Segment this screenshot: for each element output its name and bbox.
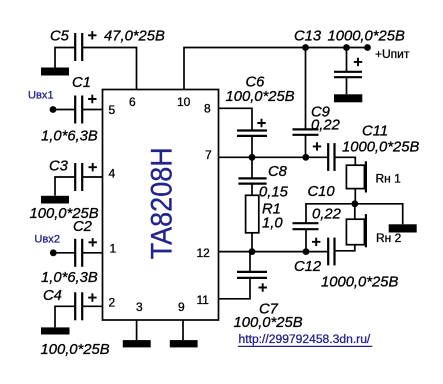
svg-text:C4: C4 [43,288,62,304]
resistor Rn1 [346,161,366,192]
IC U1 TA8208H [103,90,219,321]
svg-text:11: 11 [197,293,210,307]
svg-text:5: 5 [109,103,116,117]
svg-text:+Uпит: +Uпит [375,47,410,61]
wire pin 8 to C6 [219,108,253,130]
svg-text:C10: C10 [308,184,336,200]
wire pin 3 to ground [136,320,138,340]
node supply at C13 branch [302,44,309,51]
polarity + of C13 [354,58,362,66]
ground of C5 [41,68,69,76]
svg-text:9: 9 [178,300,185,314]
wire Rn2 to C12 [335,245,355,251]
svg-text:1: 1 [110,242,117,256]
svg-text:0,15: 0,15 [259,185,289,201]
wire C5 left [55,48,75,68]
wire C7 to pin 11 [219,278,251,299]
wire input1 to C1 [53,109,75,111]
ground of Rn [389,224,417,232]
wire C2 to pin 1 [82,252,102,254]
wire pin 10 to supply rail [184,48,368,90]
svg-text:4: 4 [109,167,116,181]
ground of C4 [41,327,70,334]
wire junction to ground [355,204,403,225]
svg-text:1000,0*25В: 1000,0*25В [342,140,419,156]
wire C8 to R1 [251,184,253,196]
wire junction to C10 [306,204,355,223]
wire C10 to rail 12 [305,229,307,251]
svg-text:6: 6 [129,95,136,109]
polarity + of C2 [89,238,97,246]
polarity + of C11 [313,142,321,150]
capacitor C11 [328,143,334,171]
svg-text:100,0*25В: 100,0*25В [234,315,303,331]
capacitor C2 [75,239,82,267]
wire C9 to rail 7 [305,135,307,158]
wire rail pin 12 [219,251,329,253]
resistor R1 [246,195,259,233]
wire C13 to ground [346,77,348,94]
polarity + of C4 [88,293,96,301]
wire rail7 to C8 [251,157,253,178]
svg-text:2: 2 [109,296,116,310]
svg-text:C2: C2 [73,219,93,235]
svg-text:1000,0*25В: 1000,0*25В [321,275,398,291]
capacitor C10 [293,223,319,229]
wire rail12 to C7 [249,252,251,272]
svg-text:C11: C11 [362,124,388,140]
wire C6 to rail 7 [251,136,253,157]
wire C1 to pin 5 [82,109,102,111]
svg-text:C5: C5 [50,29,70,45]
capacitor C13 [334,72,362,77]
svg-text:3: 3 [136,300,143,314]
ground of C13 [334,94,362,102]
wire Rn1 to junction [354,189,356,204]
wire pin 9 to ground [182,320,184,340]
capacitor C9 [293,129,319,134]
svg-text:1,0*6,3В: 1,0*6,3В [41,129,98,145]
node input 1 [50,106,57,113]
resistor Rn2 [346,214,366,247]
svg-text:Rн 1: Rн 1 [376,172,402,186]
wire supply to C13 [346,48,348,72]
svg-text:C1: C1 [72,75,91,91]
capacitor C3 [75,163,82,191]
svg-text:7: 7 [205,148,212,162]
capacitor C4 [75,292,82,320]
polarity + of C3 [89,163,97,171]
svg-text:10: 10 [177,95,191,109]
wire C4 left [55,306,75,327]
svg-text:100,0*25В: 100,0*25В [41,342,110,358]
svg-text:100,0*25В: 100,0*25В [226,89,295,105]
svg-text:Rн 2: Rн 2 [376,231,402,245]
svg-text:12: 12 [197,246,211,260]
svg-text:0,22: 0,22 [311,118,341,134]
svg-text:C8: C8 [268,164,288,180]
svg-text:8: 8 [204,102,211,116]
wire R1 to rail12 [251,233,253,252]
svg-text:TA8208H: TA8208H [145,147,178,259]
capacitor C7 [237,272,267,278]
svg-text:47,0*25В: 47,0*25В [104,29,165,45]
svg-text:1,0*6,3В: 1,0*6,3В [41,270,98,286]
svg-text:Uвх2: Uвх2 [34,233,60,245]
polarity + of C7 [259,283,267,291]
capacitor C5 [75,33,82,61]
node supply at C13 cap [343,44,350,51]
polarity + of C5 [88,31,96,39]
svg-text:C13: C13 [294,28,322,44]
capacitor C12 [328,238,334,266]
polarity + of C6 [257,119,265,127]
wire rail pin 7 [219,156,329,158]
ground of C3 [41,196,69,204]
svg-text:1000,0*25В: 1000,0*25В [328,28,405,44]
node rail12 C10 [303,248,310,255]
capacitor C6 [237,131,267,136]
ground of pin 9 [170,340,198,347]
svg-text:C12: C12 [294,259,322,275]
node Rn junction [351,200,358,207]
polarity + of C1 [88,95,96,103]
svg-text:http://299792458.3dn.ru/: http://299792458.3dn.ru/ [239,332,371,346]
capacitor C1 [75,96,82,124]
wire C5 to pin 6 [82,48,136,90]
node +Upit terminal [364,44,371,51]
node rail7 C8 [249,154,256,161]
svg-text:C3: C3 [49,159,69,175]
node input 2 [50,249,57,256]
wire input2 to C2 [53,252,75,254]
wire C3 left [55,177,75,196]
wire Rn junction to Rn2 [354,204,356,219]
svg-text:1,0: 1,0 [262,216,283,232]
svg-text:Uвх1: Uвх1 [28,90,54,102]
node rail7 C9 [302,154,309,161]
capacitor C8 [238,178,266,183]
wire C13 branch to C9 [305,48,307,130]
node rail12 R1 [249,248,256,255]
polarity + of C12 [312,238,320,246]
wire C4 to pin 2 [82,305,102,307]
link underline [238,345,372,347]
wire C11 to Rn1 [335,157,356,165]
wire C3 to pin 4 [82,176,102,178]
svg-text:0,22: 0,22 [312,207,342,223]
ground of pin 3 [123,340,151,347]
